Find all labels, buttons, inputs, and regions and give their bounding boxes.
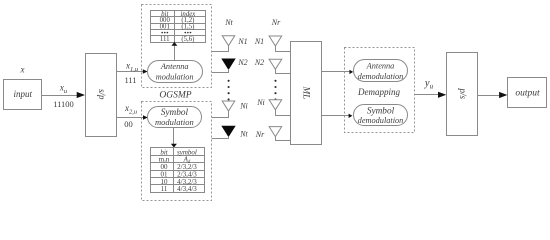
Nt column header label bbox=[224, 18, 233, 27]
svg-text:N1: N1 bbox=[254, 37, 264, 46]
receive antenna N1 bbox=[269, 36, 290, 52]
output box bbox=[508, 78, 547, 108]
receive antenna Nr bbox=[269, 127, 290, 141]
svg-text:001: 001 bbox=[160, 23, 170, 30]
bit-index mapping table bbox=[150, 11, 205, 44]
wire demapping to p/s with label y_u bbox=[415, 78, 447, 98]
svg-text:Ni: Ni bbox=[239, 102, 248, 111]
svg-text:(5,6): (5,6) bbox=[181, 36, 194, 43]
Antenna modulation block bbox=[148, 61, 203, 83]
svg-text:modulation: modulation bbox=[155, 117, 194, 127]
label N1 transmit bbox=[237, 37, 247, 46]
transmit antenna N1 bbox=[212, 36, 235, 52]
svg-text:Demapping: Demapping bbox=[357, 87, 400, 97]
dashed box symbol mapping group bbox=[142, 102, 212, 201]
transmit antenna Ni bbox=[212, 101, 235, 118]
wire Antenna modulation up to table bbox=[171, 42, 177, 60]
svg-text:s/p: s/p bbox=[97, 89, 107, 100]
label Ni receive bbox=[256, 98, 265, 107]
svg-text:Nr: Nr bbox=[271, 18, 281, 27]
svg-text:Antenna: Antenna bbox=[160, 62, 189, 71]
p/s box bbox=[447, 53, 478, 136]
Antenna demodulation block bbox=[354, 60, 408, 82]
svg-text:Antenna: Antenna bbox=[366, 62, 395, 71]
input box bbox=[4, 80, 42, 110]
s/p box bbox=[86, 54, 117, 137]
svg-text:output: output bbox=[515, 88, 540, 98]
svg-text:4/3,4/3: 4/3,4/3 bbox=[177, 185, 197, 193]
node x label bbox=[20, 65, 25, 75]
dashed box demapping group bbox=[345, 48, 415, 133]
svg-text:Nr: Nr bbox=[255, 130, 265, 139]
wire p/s to output bbox=[478, 92, 508, 98]
svg-text:Symbol: Symbol bbox=[367, 106, 395, 116]
wire ML to Symbol demodulation bbox=[321, 114, 352, 118]
svg-text:11100: 11100 bbox=[53, 99, 74, 109]
receive column dots bbox=[274, 80, 276, 101]
transmit column dots bbox=[228, 80, 230, 101]
svg-text:Nt: Nt bbox=[239, 130, 248, 139]
label Nr receive bbox=[255, 130, 265, 139]
svg-text:input: input bbox=[13, 89, 32, 99]
svg-text:11: 11 bbox=[161, 185, 168, 193]
Nr column header label bbox=[271, 18, 281, 27]
svg-text:Nt: Nt bbox=[224, 18, 233, 27]
svg-text:demodulation: demodulation bbox=[358, 116, 404, 125]
svg-text:Ni: Ni bbox=[256, 98, 265, 107]
transmit antenna Nt (filled) bbox=[212, 126, 235, 138]
svg-text:111: 111 bbox=[160, 36, 170, 43]
svg-text:N2: N2 bbox=[254, 58, 264, 67]
wire Symbol modulation down to table bbox=[171, 127, 177, 147]
svg-text:111: 111 bbox=[124, 75, 136, 85]
label Ni transmit bbox=[239, 102, 248, 111]
OGSMP label bbox=[159, 90, 191, 100]
receive antenna N2 bbox=[269, 59, 290, 73]
svg-text:demodulation: demodulation bbox=[358, 72, 404, 81]
svg-text:00: 00 bbox=[124, 119, 133, 129]
svg-text:modulation: modulation bbox=[156, 73, 194, 82]
svg-text:OGSMP: OGSMP bbox=[159, 90, 191, 100]
Symbol demodulation block bbox=[354, 105, 408, 126]
Symbol modulation block bbox=[148, 107, 202, 128]
wire s/p to Symbol modulation with label x_2u and 00 bbox=[117, 103, 148, 129]
svg-text:N1: N1 bbox=[237, 37, 247, 46]
wire ML to Antenna demodulation bbox=[321, 70, 353, 74]
label N2 receive bbox=[254, 58, 264, 67]
bit-symbol mapping table bbox=[150, 148, 205, 194]
svg-text:ML: ML bbox=[302, 86, 312, 100]
ML detector box bbox=[291, 42, 322, 145]
wire input to s/p with label x_u and 11100 bbox=[42, 83, 85, 110]
transmit antenna N2 (filled) bbox=[212, 59, 235, 73]
receive antenna Ni bbox=[269, 100, 290, 116]
wire s/p to Antenna modulation with label x_1u and 111 bbox=[117, 61, 148, 86]
svg-text:x: x bbox=[20, 65, 25, 75]
Demapping label bbox=[357, 87, 400, 97]
label N1 receive bbox=[254, 37, 264, 46]
label Nt transmit bbox=[239, 130, 248, 139]
svg-text:N2: N2 bbox=[237, 58, 247, 67]
svg-text:(1,5): (1,5) bbox=[181, 23, 194, 30]
label N2 transmit bbox=[237, 58, 247, 67]
dashed box antenna mapping group bbox=[142, 5, 212, 88]
svg-text:p/s: p/s bbox=[458, 87, 468, 99]
